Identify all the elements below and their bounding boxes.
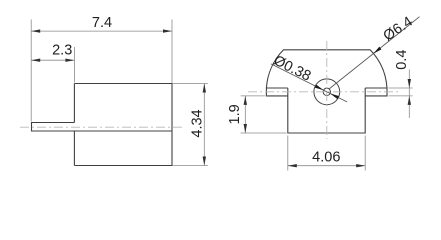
extension line 0.4 bottom (y=95.9) — [389, 95, 413, 97]
dimension 0.4 line — [408, 70, 410, 119]
extension line 4.06 right (x=365.2) — [364, 136, 366, 171]
dimension 7.4 line — [31, 30, 172, 32]
extension line 0.4 top (y=88) — [389, 87, 413, 89]
left view centerline — [20, 126, 184, 128]
svg-text:4.34: 4.34 — [190, 109, 206, 137]
svg-text:1.9: 1.9 — [227, 104, 243, 124]
dimension 4.34 bottom arrow — [203, 157, 206, 166]
svg-text:7.4: 7.4 — [92, 15, 112, 31]
svg-text:2.3: 2.3 — [52, 43, 72, 59]
extension line for 2.3 (x=74.4) — [73, 47, 75, 83]
dimension 4.06 right arrow — [356, 164, 365, 167]
extension line 1.9 top (y=95.9) — [241, 95, 265, 97]
leader 0.38 upper-left arrow — [315, 85, 324, 91]
extension line left (x=31.2) — [30, 20, 32, 122]
dimension 7.4 right arrow — [163, 29, 172, 32]
leader line for hole dia 0.38 — [271, 64, 347, 102]
dimension 4.06 left arrow — [288, 164, 297, 167]
leader line for outer dia 6.4 — [329, 17, 420, 89]
dimension 2.3 right arrow — [65, 59, 74, 62]
dimension 4.34 line — [203, 84, 205, 166]
extension line 4.06 left (x=287.8) — [287, 136, 289, 171]
right view right flange — [365, 88, 387, 96]
dimension 7.4 left arrow — [31, 29, 40, 32]
dimension 2.3 line — [31, 59, 74, 61]
extension line top of 4.34 (y=83.5) — [172, 83, 208, 85]
leader 0.38 lower-right arrow — [330, 94, 339, 99]
right view vertical centerline — [326, 41, 328, 139]
left view body rectangle — [74, 84, 172, 166]
dimension 1.9 top arrow — [244, 96, 247, 105]
right view top arc outline — [266, 50, 387, 88]
dimension 1.9 bottom arrow — [244, 124, 247, 133]
right view body — [288, 88, 365, 133]
leader 6.4 arrow on arc — [373, 47, 381, 54]
dimension 4.06 line — [288, 165, 365, 167]
svg-text:0.4: 0.4 — [394, 50, 410, 70]
svg-text:4.06: 4.06 — [312, 149, 340, 165]
dimension 2.3 left arrow — [31, 59, 40, 62]
hub circle — [314, 79, 340, 105]
dimension 4.34 top arrow — [203, 84, 206, 93]
dimension 0.4 bottom arrow (outside, pointing up) — [408, 96, 411, 105]
right view horizontal centerline — [248, 91, 400, 93]
dimension 1.9 line — [244, 96, 246, 133]
extension line bottom of 4.34 (y=165.5) — [172, 165, 208, 167]
dimension 0.4 top arrow (outside, pointing down) — [408, 79, 411, 88]
left view shaft tab — [32, 123, 173, 132]
shaft hole circle — [323, 88, 330, 95]
extension line right of 7.4 (x=172) — [171, 20, 173, 84]
right view left flange — [266, 88, 287, 96]
extension line 1.9 bottom (y=133) — [241, 132, 287, 134]
